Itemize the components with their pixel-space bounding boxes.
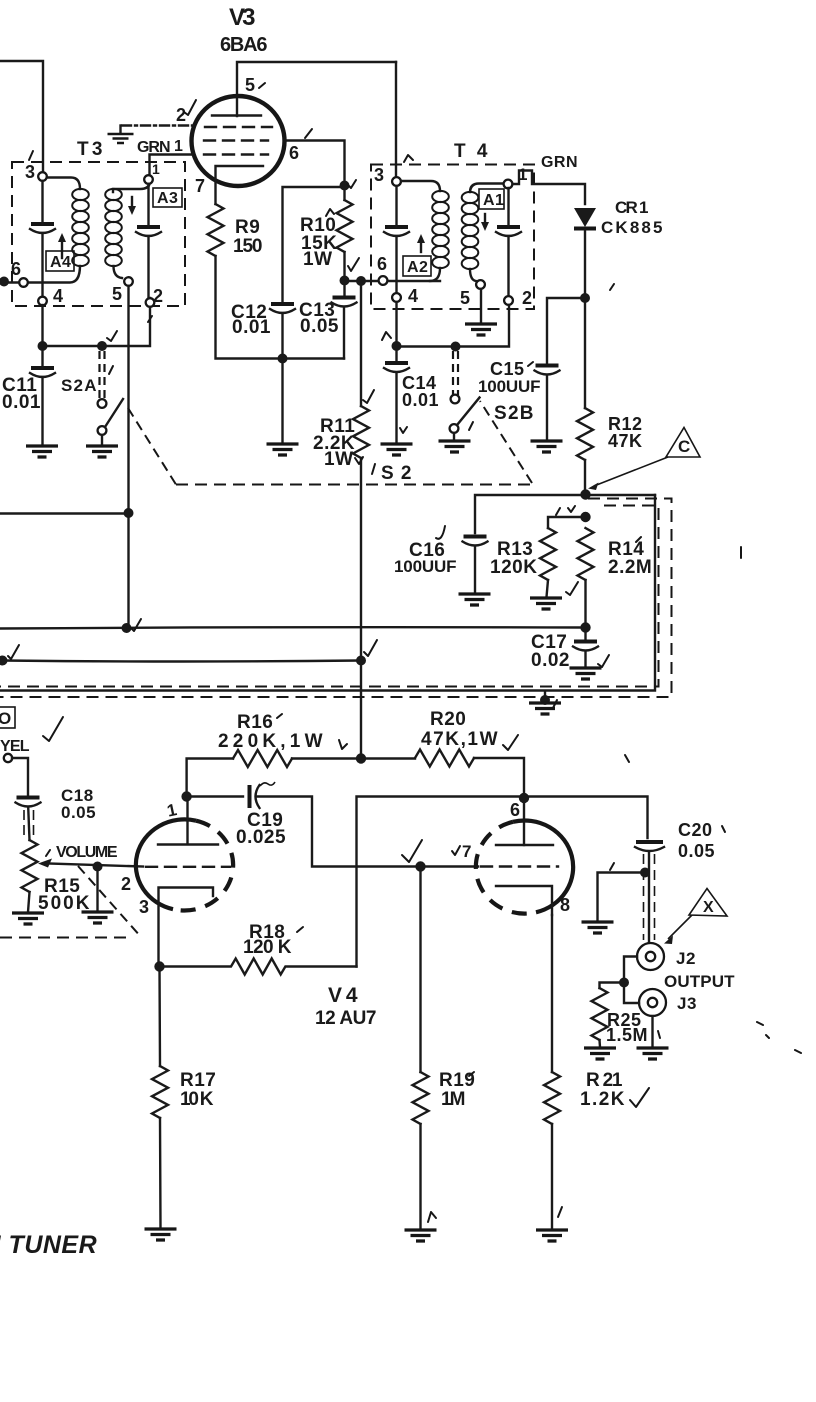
wire to left edge at 513 <box>0 512 129 514</box>
shield solid boundary <box>0 495 655 691</box>
junction pin5 bus <box>124 508 134 518</box>
potentiometer R15 <box>22 840 38 892</box>
svg-text:120K: 120K <box>490 557 537 578</box>
wire pin1 cap to pin2 <box>149 184 151 298</box>
wire J3 bottom <box>651 1016 653 1047</box>
capacitor C19 <box>248 785 252 808</box>
coax shield dashes <box>644 854 655 940</box>
check after 1.2K <box>630 1088 649 1107</box>
resistor R21 <box>544 1072 560 1124</box>
junction V4b plate node <box>519 793 529 803</box>
check before R20 value <box>625 755 629 762</box>
svg-text:V3: V3 <box>229 4 256 31</box>
tick after V3 pin5 <box>259 83 265 88</box>
svg-text:6: 6 <box>289 143 300 163</box>
check at S2A mid <box>109 366 113 374</box>
svg-text:2: 2 <box>153 286 164 306</box>
svg-text:1W: 1W <box>303 249 333 270</box>
wire R12 bottom <box>584 460 586 495</box>
ground C15 <box>531 441 563 452</box>
T4 pin 5 terminal <box>476 280 485 289</box>
svg-text:12 AU7: 12 AU7 <box>315 1008 377 1029</box>
T3 pin 3 terminal <box>38 172 47 181</box>
T3 coil A3 <box>105 189 122 266</box>
T4 pin 3 terminal <box>392 177 401 186</box>
capacitor C17 <box>574 640 597 644</box>
svg-text:5: 5 <box>460 288 471 308</box>
svg-text:150: 150 <box>233 236 263 257</box>
wire R16 left lead <box>187 759 233 797</box>
V4a plate <box>158 801 218 845</box>
svg-text:7: 7 <box>462 842 472 861</box>
svg-text:0.01: 0.01 <box>2 392 41 413</box>
wire C19 to V4b grid <box>257 797 478 867</box>
wire T4 pin1 cap pin2 <box>507 188 509 296</box>
switch S2A contact <box>98 399 107 408</box>
svg-text:6: 6 <box>377 254 388 274</box>
wire T4 pin3 cap pin4 <box>395 186 397 293</box>
svg-text:S2A: S2A <box>61 376 97 395</box>
resistor R18 <box>160 959 357 975</box>
junction C14 <box>392 341 402 351</box>
check at C17 <box>598 655 609 667</box>
T3 pin 4 terminal <box>38 297 47 306</box>
T3 pin 1 terminal <box>144 175 153 184</box>
svg-text:0.05: 0.05 <box>300 316 339 337</box>
boxed label at left edge <box>0 707 15 728</box>
svg-text:1: 1 <box>174 138 183 155</box>
tick before VOLUME <box>46 850 50 856</box>
junction left edge B+ <box>0 656 8 666</box>
ground J3 <box>637 1048 669 1059</box>
svg-text:C: C <box>678 437 691 456</box>
volume box dashed bottom <box>0 937 128 939</box>
tick near V3 pin6 wire <box>305 129 312 138</box>
T4 up arrow (A2) <box>420 242 422 252</box>
tick on R10 <box>326 209 334 216</box>
wire C14 bus to S2B and pin2 <box>397 305 510 347</box>
svg-text:120 K: 120 K <box>243 937 292 958</box>
tube V4b envelope solid arc <box>513 820 573 912</box>
check below R14 <box>566 582 578 595</box>
V3 shield dash-dot line <box>122 124 193 126</box>
ground R15 <box>12 913 44 924</box>
junction R10/C13 <box>340 276 350 286</box>
junction CR1/C15 <box>580 293 590 303</box>
junction R13/R14 <box>580 512 590 522</box>
T3 internal cap (pin3 side) <box>31 222 54 226</box>
tick above T4 pin3 <box>404 155 413 162</box>
svg-text:1: 1 <box>152 161 160 177</box>
wire C19 branch <box>187 795 243 797</box>
junction B+ node <box>356 753 366 763</box>
diode CR1 <box>574 208 596 227</box>
tick near shield ground <box>610 863 614 870</box>
switch S2A arm <box>105 399 123 427</box>
switch S2B pole <box>450 424 459 433</box>
wire R13 ground lead <box>547 580 549 597</box>
svg-text:A2: A2 <box>407 259 428 276</box>
ground C17 <box>570 668 602 679</box>
V4b cathode <box>496 886 552 915</box>
T3 coil A3 bottom wire to pin 5 <box>114 266 123 278</box>
resistor R19 <box>413 1072 429 1124</box>
wire R14 to C17 <box>584 580 586 640</box>
junction detector node <box>580 489 590 499</box>
svg-text:R9: R9 <box>235 217 260 238</box>
junction wiper ground <box>93 862 103 872</box>
tick above R13 <box>556 508 560 515</box>
long AVC wire <box>0 627 586 628</box>
svg-text:0.05: 0.05 <box>678 841 715 861</box>
svg-text:CK885: CK885 <box>601 218 663 237</box>
shield ground <box>544 692 546 701</box>
wire V3 pin1 to T3 pin1 <box>150 155 193 176</box>
svg-text:C15: C15 <box>490 359 525 379</box>
long B+ wire <box>3 661 362 662</box>
coax shield ground dot <box>640 868 650 878</box>
svg-text:3: 3 <box>374 165 385 185</box>
svg-text:1M: 1M <box>441 1089 466 1110</box>
switch S2B contact <box>451 395 460 404</box>
V4b grid (dashed) <box>481 865 558 867</box>
svg-text:CR 1: CR 1 <box>615 198 649 217</box>
wire R19 bottom <box>419 1124 421 1229</box>
switch S2B arm <box>457 398 480 426</box>
check above S2A <box>107 331 117 341</box>
svg-text:0.025: 0.025 <box>236 827 286 848</box>
check above C14 junction <box>382 332 391 340</box>
check at R21 ground <box>558 1207 562 1217</box>
wire R20 right lead <box>474 758 524 793</box>
wire T3 pin2 down to S2A bus <box>47 307 150 346</box>
svg-text:FM TUNER: FM TUNER <box>0 1231 97 1259</box>
tick below C14 value <box>400 427 407 433</box>
C19 squiggle <box>260 782 275 786</box>
terminal YEL <box>4 754 12 762</box>
capacitor C12 <box>271 302 294 306</box>
svg-text:5: 5 <box>245 75 256 95</box>
svg-text:O: O <box>0 709 12 728</box>
svg-text:GRN: GRN <box>137 139 171 156</box>
wire plate node to C12 <box>283 187 345 303</box>
wire R15 bottom <box>28 892 30 912</box>
check near R11 <box>363 390 374 403</box>
ground R21 <box>536 1230 568 1241</box>
tick after R19 <box>469 1072 474 1076</box>
svg-text:1.2K: 1.2K <box>580 1089 625 1110</box>
wire T3 pin6 to left edge <box>2 281 19 283</box>
svg-text:3: 3 <box>139 897 150 917</box>
big check at V4b grid <box>402 840 422 862</box>
switch S2A pole <box>98 426 107 435</box>
V3 plate <box>212 114 261 116</box>
T4 primary top wire <box>401 181 440 191</box>
tube V3 envelope <box>192 96 285 186</box>
capacitor C11 <box>31 366 54 370</box>
capacitor C16 <box>464 535 487 539</box>
junction AVC line <box>122 623 132 633</box>
T4 pin5 ground <box>480 289 482 323</box>
flag C triangle <box>666 428 700 458</box>
svg-text:A1: A1 <box>483 192 504 209</box>
wire detector node to C16 <box>475 495 655 533</box>
svg-text:1W: 1W <box>324 449 354 470</box>
svg-text:OUTPUT: OUTPUT <box>664 972 735 991</box>
svg-text:T 3: T 3 <box>77 139 103 160</box>
svg-text:2: 2 <box>522 288 533 308</box>
wire R10 bottom <box>343 252 345 296</box>
capacitor C18 <box>17 796 40 800</box>
resistor R12 <box>577 408 593 460</box>
transformer T3 shield box <box>12 162 185 306</box>
tick after R14 <box>636 537 641 542</box>
svg-text:47K: 47K <box>608 431 643 451</box>
svg-text:0.01: 0.01 <box>402 390 439 410</box>
wire R21 bottom <box>551 1124 553 1229</box>
resistor R13 <box>540 528 556 580</box>
check near T3 pin2 <box>148 316 152 322</box>
resistor R25 <box>592 988 608 1040</box>
junction R25 <box>619 978 629 988</box>
check below diode area <box>610 284 614 290</box>
shield outer dashed box <box>0 499 672 698</box>
svg-text:J3: J3 <box>677 994 697 1013</box>
wire to R13 <box>548 517 586 528</box>
wire V4b plate stem <box>523 798 525 845</box>
T4 coil A1 top wire <box>470 184 503 193</box>
svg-text:10 K: 10 K <box>180 1089 214 1110</box>
S2 boundary left diagonal <box>128 408 176 485</box>
tick near detector box <box>568 506 575 512</box>
svg-text:2: 2 <box>176 105 187 125</box>
junction R19 node <box>415 861 425 871</box>
wire pin3 cap to pin4 <box>41 181 43 296</box>
svg-text:0.01: 0.01 <box>232 317 271 338</box>
wire V3 pin6 to R10 <box>284 141 345 181</box>
tick near J3 ground <box>658 1031 660 1038</box>
svg-text:X: X <box>703 899 714 916</box>
check at YEL <box>43 717 63 741</box>
wire R16 right lead <box>292 757 361 759</box>
wire R20 left lead <box>361 757 415 759</box>
V3 cathode <box>216 166 264 204</box>
tube V4a envelope solid arc <box>136 819 196 909</box>
svg-text:R16: R16 <box>237 712 273 733</box>
T4 down arrow (A1) <box>484 214 486 222</box>
junction R11 top <box>356 276 366 286</box>
wire R17 top lead <box>158 967 161 1067</box>
wire V3 plate top <box>237 62 396 116</box>
ground C16 <box>459 594 491 605</box>
tick after C20 <box>722 826 725 832</box>
wire plate feed V4b <box>357 797 648 967</box>
wire R17 bottom <box>159 1118 162 1228</box>
wire T3 pin5 down long <box>127 286 129 628</box>
check above T3 pin3 <box>29 151 33 160</box>
ground C14 <box>381 444 413 455</box>
svg-text:R20: R20 <box>430 709 466 730</box>
ground C11 <box>26 446 58 457</box>
junction at left edge <box>0 277 9 287</box>
wiper ground <box>96 867 98 912</box>
capacitor C15 <box>536 364 559 368</box>
ground R25 <box>584 1048 616 1059</box>
pointer from X flag <box>668 915 692 939</box>
resistor R10 <box>337 200 353 252</box>
capacitor C20 <box>636 840 663 844</box>
wire R21 lead <box>551 915 553 1072</box>
volume box dashed diagonal <box>78 866 142 938</box>
svg-text:A3: A3 <box>157 190 178 207</box>
tick before S2 label <box>372 464 375 474</box>
shield inner dashed box <box>0 506 659 687</box>
transformer T4 shield box <box>371 165 534 310</box>
volume wiper arrow <box>38 859 52 868</box>
T3 up arrow (A4) <box>61 240 63 258</box>
svg-text:A4: A4 <box>50 254 71 271</box>
resistor R11 <box>353 406 369 458</box>
ground R13 <box>530 598 562 609</box>
wire plate-load bus to T4 pin6 <box>345 280 441 282</box>
check at plate node <box>347 180 356 188</box>
V3 grid 3 (dashed) <box>205 126 272 128</box>
wire R25 top lead <box>600 983 625 989</box>
jack J2 <box>637 943 664 970</box>
jack J3 <box>639 989 666 1016</box>
tube V4b envelope dashed arc <box>476 822 536 914</box>
resistor R14 <box>578 528 594 580</box>
S2 boundary bottom <box>176 484 532 486</box>
T3 coil A3 top wire <box>113 183 150 192</box>
coax shield ground bracket <box>598 873 646 922</box>
V3 shield ground <box>119 126 121 134</box>
switch S2B junction <box>451 342 461 352</box>
junction C11 <box>38 341 48 351</box>
wiper wire to V4 grid <box>48 864 143 867</box>
svg-text:100UUF: 100UUF <box>478 377 541 396</box>
stray specks right <box>757 1022 801 1053</box>
V3 grid 1 (dashed) <box>204 153 268 155</box>
ground R19 <box>405 1230 437 1241</box>
svg-text:6: 6 <box>11 259 22 279</box>
T3 label A3 box <box>153 188 182 207</box>
junction C17 <box>580 622 590 632</box>
svg-text:220K,1W: 220K,1W <box>218 731 323 752</box>
svg-text:47K,1W: 47K,1W <box>421 729 498 750</box>
svg-text:VOLUME: VOLUME <box>56 844 118 861</box>
T4 pin 1 terminal <box>504 180 513 189</box>
capacitor C14 <box>385 361 408 365</box>
junction B+ riser <box>356 656 366 666</box>
V3 grid 2 (dashed) <box>204 139 268 141</box>
wire R25 bottom <box>598 1040 601 1047</box>
svg-text:2: 2 <box>121 874 132 894</box>
flag X triangle <box>689 889 727 917</box>
switch S2A dashed link <box>100 351 105 399</box>
V4a grid (dashed) <box>146 866 230 868</box>
wire top-left to T3 pin 3 <box>0 61 43 172</box>
svg-text:YEL: YEL <box>0 738 30 755</box>
wire R11 leads <box>360 286 362 759</box>
T4 coil A2 bottom wire <box>430 268 440 281</box>
svg-text:6BA6: 6BA6 <box>220 34 268 56</box>
T3 down arrow (A3) <box>131 197 133 206</box>
V4b plate <box>496 844 553 846</box>
check after 47K,1W <box>503 735 518 750</box>
pointer from C flag <box>594 457 668 486</box>
ground R17 <box>145 1229 177 1240</box>
wire R10 top <box>343 190 345 200</box>
svg-text:1.5M: 1.5M <box>606 1025 648 1045</box>
svg-text:C20: C20 <box>678 820 713 840</box>
svg-text:0.05: 0.05 <box>61 803 96 822</box>
T3 pin 2 terminal <box>146 298 155 307</box>
switch S2B dashed link <box>453 351 458 395</box>
T3 primary top wire <box>47 178 80 190</box>
tick below R11 <box>355 457 363 464</box>
wire T3 pin4 down <box>41 305 43 341</box>
svg-text:R17: R17 <box>180 1070 216 1091</box>
T4 pin 2 terminal <box>504 296 513 305</box>
T3 coil A4 <box>72 189 89 266</box>
wire T4 pin1 to CR1 with connector bump <box>513 171 586 205</box>
S2 boundary right diagonal <box>480 401 532 483</box>
svg-text:5: 5 <box>112 284 123 304</box>
T3 label A4 box <box>46 251 74 271</box>
svg-text:2.2M: 2.2M <box>608 557 652 578</box>
T4 internal cap <box>385 225 408 229</box>
check at left-edge B+ dot <box>8 645 19 659</box>
T3 right cap <box>137 225 160 229</box>
svg-text:4: 4 <box>408 286 419 306</box>
check near C16 <box>436 526 445 539</box>
svg-text:R19: R19 <box>439 1070 475 1091</box>
wire CR1 to R12 <box>584 298 586 408</box>
switch S2A top junction <box>97 341 107 351</box>
wire T4 pin3 feed <box>395 62 397 177</box>
T4 label A2 box <box>403 256 431 276</box>
svg-text:S2B: S2B <box>494 403 534 424</box>
wire R9 bottom <box>216 256 345 359</box>
svg-text:GRN: GRN <box>541 154 578 171</box>
svg-text:6: 6 <box>510 800 521 820</box>
junction V3 plate node <box>340 181 350 191</box>
T4 pin 6 terminal <box>379 276 388 285</box>
capacitor C13 <box>333 296 356 300</box>
check at S2B <box>469 422 473 430</box>
V4a cathode <box>159 888 214 967</box>
wire J2-J3 shell link <box>624 957 639 1004</box>
resistor R16 <box>233 750 292 767</box>
switch S2B ground <box>453 433 455 440</box>
resistor R20 <box>415 750 474 767</box>
shield ground dot <box>540 695 550 705</box>
svg-text:4: 4 <box>53 286 64 306</box>
stray mark right <box>740 547 742 558</box>
svg-text:J2: J2 <box>676 949 696 968</box>
resistor R9 <box>208 204 224 256</box>
T3 pin 6 terminal <box>19 278 28 287</box>
check below R10 <box>348 258 359 271</box>
check at R19 ground <box>428 1212 436 1222</box>
T4 coil A1 bottom to pin 5 <box>470 269 476 281</box>
junction C12 bottom <box>278 354 288 364</box>
wire YEL to C18 <box>12 758 28 796</box>
tube V4a envelope dashed arc <box>173 821 233 911</box>
wire R19 lead <box>419 867 421 1073</box>
wire T4 pin4 to C14 <box>395 302 397 362</box>
